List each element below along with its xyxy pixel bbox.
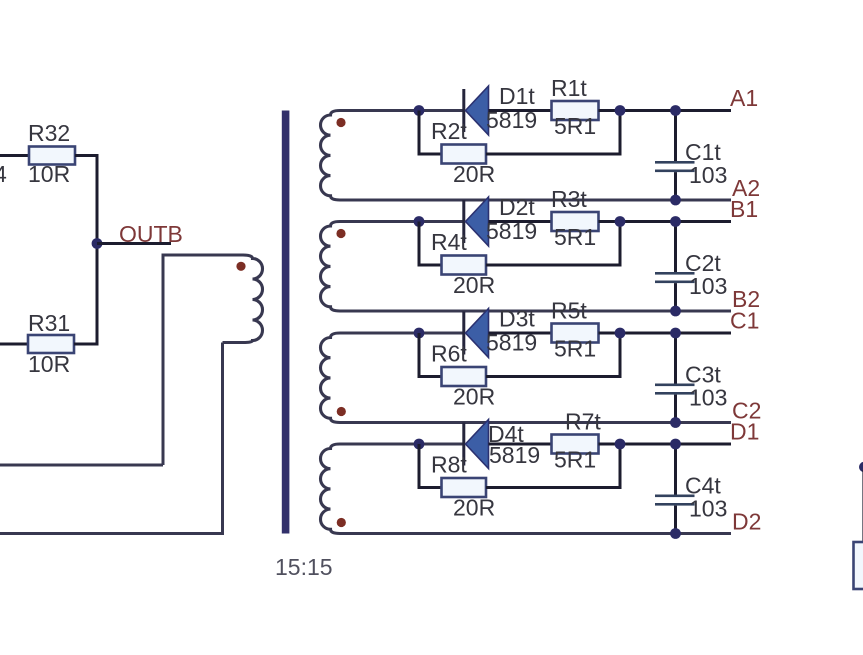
svg-text:5R1: 5R1 [554, 336, 596, 362]
svg-text:R4t: R4t [431, 229, 467, 255]
secondary 3 phase dot [337, 407, 346, 416]
wire primary bottom-left lead [0, 464, 163, 467]
wire diode D2t to R3t [489, 220, 552, 223]
node C2t top junction [670, 216, 681, 227]
wire diode D4t to R7t [489, 443, 552, 446]
svg-text:103: 103 [689, 273, 727, 299]
capacitor C4t [655, 444, 727, 534]
capacitor C2t [655, 222, 727, 312]
resistor (partial, cut at right edge) [854, 542, 863, 589]
node C4t bottom junction [670, 528, 681, 539]
wire R5t to output C1 [599, 332, 732, 335]
node C1 after R5t [615, 328, 626, 339]
wire winding 1 bottom to A2 [340, 199, 731, 202]
wire left lead of R31 [0, 343, 28, 346]
wire primary bottom lead [0, 343, 223, 534]
svg-text:10R: 10R [28, 161, 70, 187]
wire winding 3 bottom to C2 [340, 421, 731, 424]
wire OUTB stub [97, 242, 171, 245]
node C4t top junction [670, 439, 681, 450]
svg-text:A1: A1 [730, 85, 758, 111]
node D1 after R7t [615, 439, 626, 450]
svg-text:D1: D1 [730, 419, 759, 445]
node C1t bottom junction [670, 195, 681, 206]
resistor R31 [28, 310, 74, 377]
svg-text:20R: 20R [453, 384, 495, 410]
svg-text:15:15: 15:15 [275, 554, 333, 580]
svg-text:OUTB: OUTB [119, 221, 183, 247]
diode D4t cathode bar [462, 423, 465, 466]
transformer primary winding [223, 255, 263, 343]
node OUTB junction [92, 238, 103, 249]
wire R1t to output A1 [599, 109, 732, 112]
resistor R5t [551, 298, 599, 362]
svg-text:103: 103 [689, 496, 727, 522]
svg-text:20R: 20R [453, 495, 495, 521]
svg-text:R32: R32 [28, 120, 70, 146]
node winding 4 top junction [414, 439, 425, 450]
svg-text:D2t: D2t [499, 194, 535, 220]
svg-text:20R: 20R [453, 272, 495, 298]
svg-text:D1t: D1t [499, 83, 535, 109]
node B1 after R3t [615, 216, 626, 227]
resistor R6t [431, 341, 495, 410]
wire R3t to output B1 [599, 220, 732, 223]
wire 3 snubber loop right [486, 333, 620, 377]
node C1t top junction [670, 105, 681, 116]
svg-text:B1: B1 [730, 196, 758, 222]
svg-text:R3t: R3t [551, 186, 587, 212]
secondary 1 phase dot [336, 118, 345, 127]
wire 4 snubber loop right [486, 444, 620, 488]
node C2t bottom junction [670, 306, 681, 317]
node C3t top junction [670, 328, 681, 339]
node right-edge junction [859, 462, 863, 472]
node winding 3 top junction [414, 328, 425, 339]
resistor R7t [552, 409, 602, 473]
capacitor C3t [655, 333, 727, 423]
transformer secondary winding 4 [321, 444, 464, 534]
wire 2 snubber loop left [419, 222, 442, 266]
svg-text:4: 4 [0, 161, 7, 187]
svg-text:R2t: R2t [431, 118, 467, 144]
wire left lead of R32 [0, 154, 29, 157]
diode D2t cathode bar [462, 200, 465, 243]
svg-text:5R1: 5R1 [554, 224, 596, 250]
diode D2t triangle [466, 197, 489, 246]
wire primary top lead [163, 255, 243, 465]
transformer secondary winding 1 [321, 111, 464, 201]
node A1 after R1t [615, 105, 626, 116]
wire 3 snubber loop left [419, 333, 442, 377]
wire R31 right to node OUTB [74, 244, 97, 345]
resistor R2t [431, 118, 495, 187]
svg-text:R6t: R6t [431, 341, 467, 367]
capacitor C1t [655, 111, 727, 201]
resistor R4t [431, 229, 495, 298]
svg-text:D3t: D3t [499, 306, 535, 332]
node C3t bottom junction [670, 417, 681, 428]
node winding 2 top junction [414, 216, 425, 227]
wire diode D3t to R5t [489, 332, 552, 335]
wire R7t to output D1 [599, 443, 732, 446]
wire 2 snubber loop right [486, 222, 620, 266]
svg-text:103: 103 [689, 162, 727, 188]
node winding 1 top junction [414, 105, 425, 116]
wire R32 right to node OUTB [75, 156, 97, 244]
resistor R32 [28, 120, 75, 187]
svg-text:103: 103 [689, 385, 727, 411]
transformer secondary winding 3 [321, 333, 464, 423]
svg-text:D2: D2 [732, 509, 761, 535]
svg-text:R8t: R8t [431, 452, 467, 478]
svg-text:5R1: 5R1 [554, 447, 596, 473]
svg-text:20R: 20R [453, 161, 495, 187]
svg-text:5R1: 5R1 [554, 113, 596, 139]
svg-text:R31: R31 [28, 310, 70, 336]
wire diode D1t to R1t [489, 109, 552, 112]
svg-text:C1: C1 [730, 308, 759, 334]
svg-text:R7t: R7t [565, 409, 601, 435]
transformer core [282, 111, 290, 534]
wire winding 4 bottom to D2 [340, 532, 731, 535]
wire 1 snubber loop left [419, 111, 442, 155]
secondary 2 phase dot [336, 229, 345, 238]
secondary 4 phase dot [337, 518, 346, 527]
wire right-edge vertical [862, 470, 863, 542]
resistor R1t [551, 75, 599, 139]
svg-text:R5t: R5t [551, 298, 587, 324]
wire winding 2 bottom to B2 [340, 310, 731, 313]
primary phase dot [236, 262, 245, 271]
resistor R3t [551, 186, 599, 250]
svg-text:10R: 10R [28, 351, 70, 377]
diode D4t triangle [466, 420, 489, 469]
diode D3t triangle [466, 309, 489, 358]
svg-text:R1t: R1t [551, 75, 587, 101]
diode D1t cathode bar [462, 89, 465, 132]
resistor R8t [431, 452, 495, 521]
svg-text:5819: 5819 [489, 442, 540, 468]
wire 4 snubber loop left [419, 444, 442, 488]
diode D3t cathode bar [462, 312, 465, 355]
transformer secondary winding 2 [321, 222, 464, 312]
wire 1 snubber loop right [486, 111, 620, 155]
diode D1t triangle [466, 86, 489, 135]
